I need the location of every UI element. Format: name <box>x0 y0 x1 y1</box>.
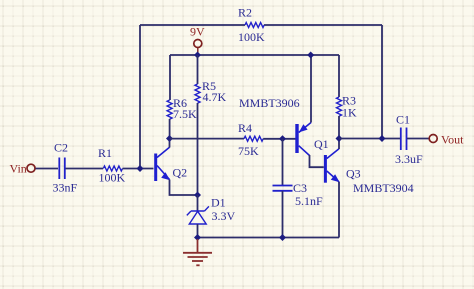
zener diode D1 <box>187 196 236 225</box>
node collector junction <box>166 135 173 142</box>
wire Q3 emitter down <box>338 182 340 238</box>
node output row Q3 junction <box>336 135 343 142</box>
node output R2 junction <box>379 135 386 142</box>
ground <box>183 239 212 265</box>
wire C3 top lead <box>282 139 284 185</box>
node C3 top junction <box>279 135 286 142</box>
wire bottom row <box>198 237 340 239</box>
wire 9V supply row <box>170 54 339 56</box>
resistor R4 <box>238 121 263 158</box>
wire R6 bottom lead <box>169 119 171 139</box>
transistor Q2 <box>156 147 187 181</box>
svg-text:R1: R1 <box>98 146 112 160</box>
svg-text:7.5K: 7.5K <box>173 107 197 121</box>
svg-text:D1: D1 <box>211 196 226 210</box>
svg-text:Vout: Vout <box>441 132 464 146</box>
node ground junction <box>194 234 201 241</box>
capacitor C1 <box>395 112 423 166</box>
capacitor C2 <box>53 141 78 195</box>
svg-text:MMBT3904: MMBT3904 <box>353 181 414 195</box>
node C3 bottom junction <box>279 234 286 241</box>
svg-text:R2: R2 <box>238 6 252 20</box>
wire Q2 emitter to zener node <box>170 180 198 196</box>
svg-text:C1: C1 <box>396 112 410 126</box>
power port 9V <box>190 25 205 54</box>
wire R6 top lead <box>169 55 171 100</box>
svg-text:Vin: Vin <box>10 162 27 176</box>
resistor R3 <box>337 94 358 120</box>
wire R5 bottom lead down to emitter node <box>197 103 199 195</box>
svg-text:R4: R4 <box>238 121 252 135</box>
wire R3 bottom lead <box>338 116 340 139</box>
wire C1 to Vout <box>407 138 429 140</box>
node Q1 emitter junction <box>307 52 314 59</box>
wire Q1 emitter to supply row <box>310 55 312 123</box>
svg-text:C3: C3 <box>293 181 307 195</box>
wire zener bottom lead <box>197 224 199 238</box>
svg-text:3.3uF: 3.3uF <box>395 152 423 166</box>
wire C3 bottom lead <box>282 191 284 238</box>
resistor R1 <box>98 146 126 185</box>
svg-text:75K: 75K <box>238 144 259 158</box>
wire Q2 collector to node <box>169 139 171 148</box>
wire C2 to R1 <box>66 168 104 170</box>
transistor Q1 <box>297 123 329 156</box>
node emitter/zener junction <box>194 192 201 199</box>
wire Q1 collector to Q3 base <box>310 155 324 167</box>
svg-text:5.1nF: 5.1nF <box>295 194 323 208</box>
port Vout <box>429 132 464 146</box>
svg-text:Q3: Q3 <box>346 167 361 181</box>
resistor R6 <box>167 96 197 121</box>
wire R2 right vertical <box>381 25 383 139</box>
node 9V junction <box>194 52 201 59</box>
svg-text:1K: 1K <box>342 106 357 120</box>
wire R5 top lead <box>197 55 199 84</box>
resistor R5 <box>195 79 227 104</box>
wire Vin to C2 <box>36 168 59 170</box>
wire R3 top lead <box>338 55 340 97</box>
wire top R2 row <box>140 24 382 26</box>
svg-text:3.3V: 3.3V <box>212 209 236 223</box>
node R2/Q2 base junction <box>137 165 144 172</box>
capacitor C3 <box>273 181 324 208</box>
wire R1 to Q2 base <box>123 168 154 170</box>
svg-text:4.7K: 4.7K <box>203 90 227 104</box>
svg-text:33nF: 33nF <box>53 181 78 195</box>
wire middle row to R4 <box>170 138 245 140</box>
wire Q3 collector to output row <box>338 139 340 150</box>
svg-text:C2: C2 <box>54 141 68 155</box>
wire output row <box>339 138 400 140</box>
svg-text:MMBT3906: MMBT3906 <box>239 96 300 110</box>
wire R4 to Q1 base <box>263 138 296 140</box>
svg-text:Q1: Q1 <box>314 137 329 151</box>
svg-text:Q2: Q2 <box>173 166 188 180</box>
wire R2 left vertical <box>139 25 141 169</box>
port Vin <box>10 162 36 176</box>
wire zener top lead <box>197 195 199 211</box>
svg-text:9V: 9V <box>190 25 205 39</box>
resistor R2 <box>238 6 265 45</box>
svg-text:100K: 100K <box>238 30 265 44</box>
transistor Q3 <box>325 149 360 183</box>
svg-text:100K: 100K <box>99 171 126 185</box>
